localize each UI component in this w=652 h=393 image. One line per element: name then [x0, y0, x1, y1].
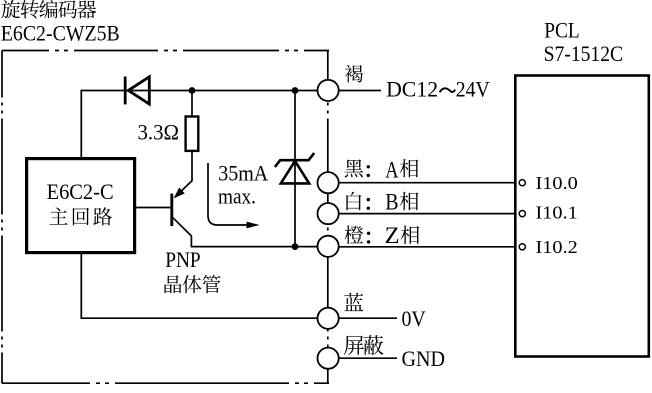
svg-text:GND: GND [402, 346, 446, 371]
current direction arrow 35mA max. [208, 163, 250, 225]
enclosure dashed border (encoder) top [2, 50, 329, 52]
svg-text:35mA: 35mA [218, 160, 268, 185]
svg-text:I10.1: I10.1 [536, 203, 578, 223]
svg-text:max.: max. [218, 184, 256, 209]
PLC input pin I10.0 [519, 180, 525, 186]
enclosure dashed border bottom [2, 382, 329, 384]
label: 橙：Z相 [345, 225, 420, 244]
svg-text:S7-1512C: S7-1512C [544, 41, 624, 66]
terminal circle brown 褐 [318, 80, 339, 101]
terminal circle blue 蓝 [318, 308, 339, 329]
svg-text:24V: 24V [456, 77, 490, 102]
svg-text:DC12: DC12 [386, 77, 438, 102]
PLC input pin I10.2 [519, 244, 525, 250]
svg-text:E6C2-C: E6C2-C [47, 179, 114, 204]
terminal circle shield 屏蔽 [318, 348, 339, 369]
wire: Z phase to PLC I10.2 [338, 246, 519, 248]
PLC input pin I10.1 [519, 211, 525, 217]
wire: A phase to PLC I10.0 [339, 182, 520, 184]
transistor Q1 PNP [170, 194, 173, 226]
wire: B phase to PLC I10.1 [338, 213, 519, 215]
wire: output rail to orange terminal [191, 246, 317, 248]
svg-text:B: B [385, 189, 398, 214]
PLC box S7-1512C [515, 76, 649, 357]
label: 褐 (brown) [345, 65, 363, 83]
svg-text:Z: Z [385, 223, 400, 248]
wire: shield terminal to GND [339, 357, 398, 359]
enclosure dashed border left [1, 51, 3, 384]
wire: brown terminal to DC12-24V [339, 90, 381, 92]
wire: junction to resistor top [191, 91, 193, 117]
svg-text:3.3Ω: 3.3Ω [138, 119, 180, 144]
diode D1 (reverse-protection, pointing left) [125, 77, 149, 105]
enclosure dashed border right [327, 51, 329, 384]
junction dot at zener top [292, 87, 299, 94]
label: 白：B相 [346, 192, 418, 211]
transistor emitter arrowhead (PNP, pointing into base) [174, 188, 185, 199]
wire: resistor bottom to emitter diagonal [176, 151, 193, 197]
label: 黑：A相 [345, 159, 419, 177]
terminal circle black A [318, 172, 339, 193]
svg-text:E6C2-CWZ5B: E6C2-CWZ5B [1, 20, 120, 45]
tilde wave of DC12~24V [440, 88, 456, 92]
terminal circle orange Z [318, 236, 339, 257]
svg-text:I10.2: I10.2 [536, 237, 578, 257]
resistor 3.3ohm (vertical box) [186, 117, 199, 151]
svg-text:A: A [385, 158, 399, 183]
terminal circle white B [318, 203, 339, 224]
label: 屏蔽 (shield) [344, 335, 384, 355]
label: encoder title 旋转编码器 [1, 0, 96, 19]
junction dot at zener bottom [292, 243, 299, 250]
svg-text:PNP: PNP [165, 247, 201, 272]
wire: box bottom to blue terminal [81, 254, 317, 318]
junction dot at resistor tap [189, 87, 196, 94]
wire: top supply rail from corner to brown terminal [81, 90, 317, 92]
svg-text:0V: 0V [402, 306, 426, 331]
wire: zener branch vertical [294, 91, 296, 247]
wire: collector down to output rail [173, 217, 192, 246]
zener diode ZD1 [275, 153, 314, 183]
wire: vertical from rail down into E6C2-C box [80, 90, 82, 157]
svg-text:I10.0: I10.0 [536, 173, 578, 193]
wire: blue terminal to 0V [339, 317, 397, 319]
label: 蓝 (blue) [344, 293, 363, 311]
E6C2-C main circuit box [27, 159, 135, 253]
svg-text:PCL: PCL [544, 17, 579, 42]
